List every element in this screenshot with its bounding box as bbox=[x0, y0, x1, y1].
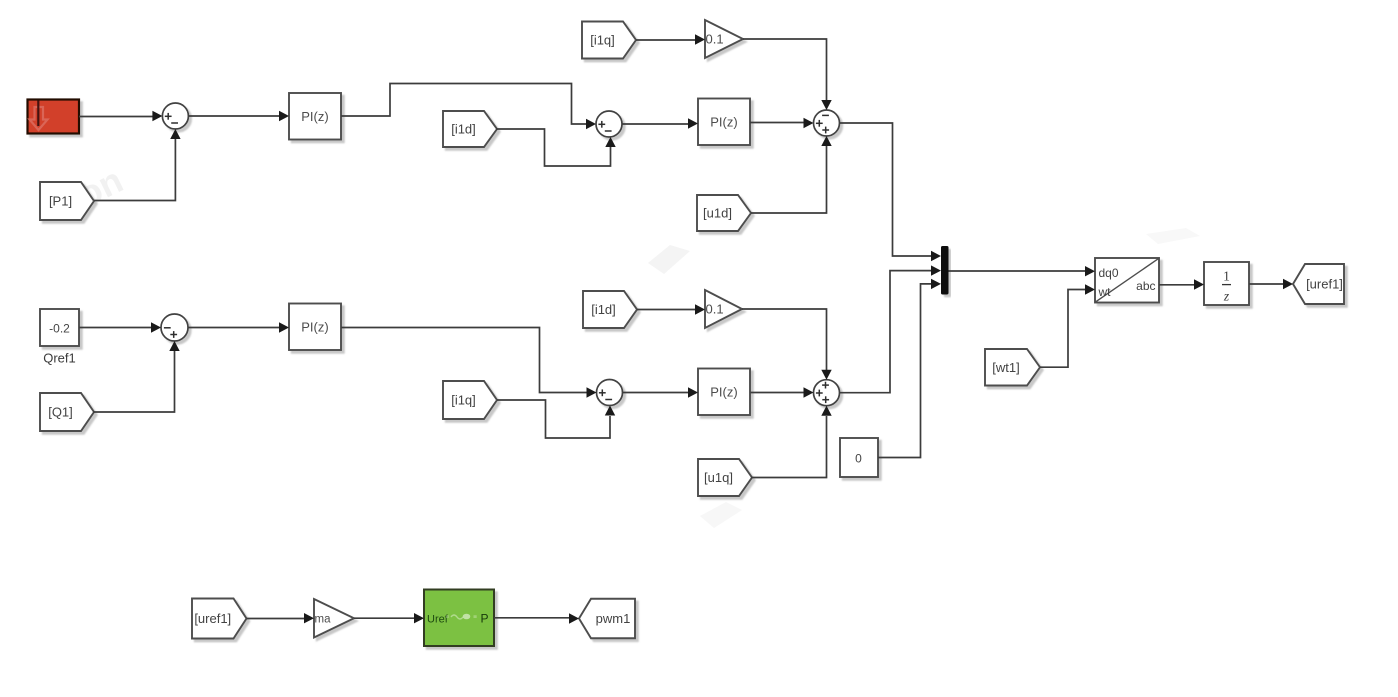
svg-text:PI(z): PI(z) bbox=[710, 114, 737, 129]
svg-text:abc: abc bbox=[1136, 279, 1155, 293]
svg-text:[uref1]: [uref1] bbox=[194, 611, 231, 626]
svg-text:[wt1]: [wt1] bbox=[992, 360, 1019, 375]
svg-text:z: z bbox=[1223, 289, 1230, 304]
svg-text:[Q1]: [Q1] bbox=[48, 405, 73, 420]
svg-text:[P1]: [P1] bbox=[49, 194, 72, 209]
svg-text:1: 1 bbox=[1223, 269, 1230, 284]
svg-text:[i1d]: [i1d] bbox=[591, 302, 616, 317]
svg-text:Qref1: Qref1 bbox=[43, 351, 76, 366]
svg-text:P: P bbox=[480, 612, 488, 626]
svg-text:0.1: 0.1 bbox=[706, 301, 724, 316]
svg-text:[uref1]: [uref1] bbox=[1306, 277, 1343, 292]
svg-text:ma: ma bbox=[315, 614, 332, 626]
svg-text:[i1q]: [i1q] bbox=[590, 33, 615, 48]
svg-text:-0.2: -0.2 bbox=[49, 322, 70, 336]
svg-text:0.1: 0.1 bbox=[706, 31, 724, 46]
svg-text:[u1d]: [u1d] bbox=[703, 206, 732, 221]
svg-text:PI(z): PI(z) bbox=[301, 319, 328, 334]
svg-text:pwm1: pwm1 bbox=[596, 611, 631, 626]
svg-text:dq0: dq0 bbox=[1099, 266, 1119, 280]
svg-text:[i1q]: [i1q] bbox=[451, 393, 476, 408]
svg-text:wt: wt bbox=[1098, 285, 1112, 299]
svg-text:[i1d]: [i1d] bbox=[451, 122, 476, 137]
svg-text:0: 0 bbox=[855, 452, 862, 466]
svg-text:PI(z): PI(z) bbox=[301, 109, 328, 124]
svg-text:PI(z): PI(z) bbox=[710, 384, 737, 399]
svg-text:Uref: Uref bbox=[427, 614, 449, 626]
svg-text:[u1q]: [u1q] bbox=[704, 470, 733, 485]
